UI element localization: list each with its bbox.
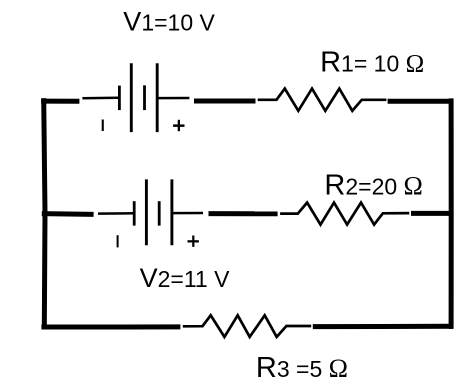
V1 positive terminal plus xyxy=(173,120,184,131)
resistor R3 (zigzag with thin leads) xyxy=(183,315,311,337)
svg-text:R3 =5 Ω: R3 =5 Ω xyxy=(256,352,348,382)
wire: left vertical bus xyxy=(44,98,45,329)
wire: top middle horizontal thick segment xyxy=(194,99,256,104)
V1 tall plate xyxy=(130,63,133,132)
svg-text:R1= 10 Ω: R1= 10 Ω xyxy=(320,47,424,79)
svg-text:V1=10 V: V1=10 V xyxy=(123,7,215,37)
V2 short plate (negative, outer left) xyxy=(133,201,136,225)
wire: V2 right thin lead xyxy=(172,212,203,215)
battery V1 xyxy=(119,63,157,132)
wire: middle horizontal thick segment (V2 to R2) xyxy=(209,211,278,216)
V1 short plate (inner) xyxy=(143,85,146,110)
V1 negative terminal tick xyxy=(102,120,104,132)
V2 tall plate xyxy=(145,179,148,245)
wire: V1 left thin lead xyxy=(82,97,118,100)
wire: top-right horizontal to corner xyxy=(388,99,454,104)
resistor R1 (zigzag with thin leads) xyxy=(258,89,387,111)
battery V2 xyxy=(134,179,172,245)
V2 tall plate (positive, outer right) xyxy=(170,179,173,245)
svg-text:R2=20 Ω: R2=20 Ω xyxy=(324,170,422,202)
wire: middle-left horizontal (left bus to V2 lead) xyxy=(42,211,94,217)
V2 short plate (inner) xyxy=(158,201,161,225)
V2 positive terminal plus xyxy=(188,236,199,247)
wire: middle-right horizontal (R2 to right bus) xyxy=(411,211,454,216)
V1 tall plate (positive, outer right) xyxy=(156,63,159,132)
resistor R2 (zigzag with thin leads) xyxy=(280,203,409,225)
wire: V1 right thin lead xyxy=(157,97,189,100)
wire: top-left horizontal (left bus to V1 lead) xyxy=(41,99,79,104)
V2 negative terminal tick xyxy=(117,235,119,247)
wire: right vertical bus xyxy=(449,98,454,329)
wire: bottom-right horizontal xyxy=(313,324,453,329)
wire: bottom-left horizontal xyxy=(41,324,180,329)
V1 short plate (negative, outer left) xyxy=(118,86,121,111)
svg-text:V2=11 V: V2=11 V xyxy=(140,263,231,293)
wire: V2 left thin lead xyxy=(98,212,134,215)
